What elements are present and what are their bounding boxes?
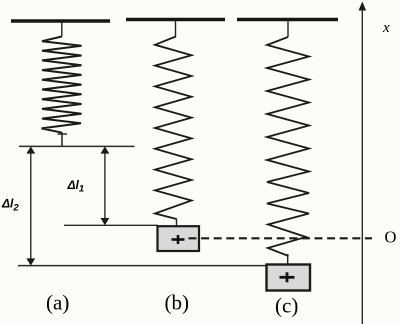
- dimension arrow delta-l1: [101, 146, 110, 225]
- hanger hook of spring (b): [175, 20, 177, 37]
- spring (b) stretched coil: [155, 37, 192, 220]
- svg-text:O: O: [385, 228, 397, 247]
- spring (a) natural length coil: [42, 37, 82, 133]
- plus charge symbol in block (c): [280, 272, 295, 282]
- x axis arrowhead: [359, 2, 367, 11]
- x axis line: [361, 5, 363, 324]
- dashed equilibrium line to axis: [189, 237, 373, 239]
- natural length reference line: [19, 145, 135, 147]
- svg-text:x: x: [382, 20, 390, 36]
- hook cross tick of spring (a): [58, 133, 68, 135]
- hanger hook of spring (a): [61, 22, 63, 37]
- plus charge symbol in block (b): [172, 235, 185, 244]
- dimension arrow delta-l2: [26, 146, 35, 265]
- lower hook of spring (a): [61, 133, 63, 147]
- ceiling support bar (c): [237, 18, 338, 21]
- ceiling support bar (a): [11, 19, 110, 22]
- svg-text:(c): (c): [275, 294, 298, 318]
- hanger hook of spring (c): [287, 20, 289, 37]
- spring (c) stretched coil: [267, 37, 309, 256]
- mass block (c): [267, 265, 311, 291]
- svg-text:(a): (a): [46, 291, 69, 315]
- lower hook of spring (b): [176, 219, 178, 227]
- lowest position reference line: [18, 265, 266, 267]
- ceiling support bar (b): [126, 18, 225, 21]
- lower hook of spring (c): [287, 254, 289, 265]
- svg-text:(b): (b): [165, 291, 190, 315]
- mass block (b): [158, 226, 200, 251]
- equilibrium level line of (b): [64, 224, 158, 226]
